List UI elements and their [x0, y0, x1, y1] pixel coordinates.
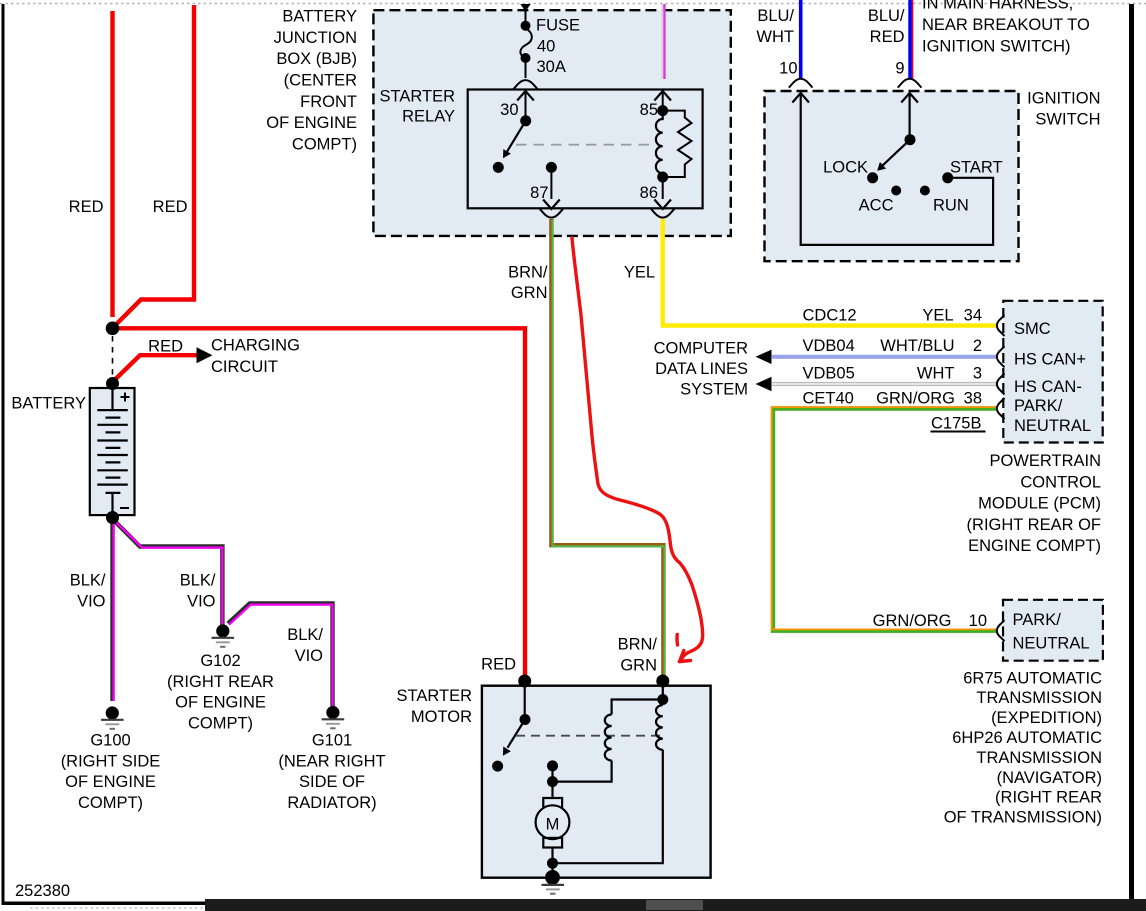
hold-in coil (right): [656, 705, 663, 750]
svg-text:(NEAR RIGHT: (NEAR RIGHT: [278, 752, 385, 770]
svg-text:G101: G101: [312, 732, 352, 750]
svg-text:VDB04: VDB04: [803, 337, 855, 355]
svg-text:10: 10: [779, 60, 797, 78]
svg-text:FUSE: FUSE: [536, 17, 580, 35]
svg-text:2: 2: [973, 337, 982, 355]
connector at ignition pin 9: [898, 79, 922, 88]
pin 86 node dot: [657, 172, 668, 183]
ignition switch dashed box: [765, 91, 1019, 261]
wire BLK/VIO G102 to G101: [228, 603, 333, 706]
svg-text:40: 40: [537, 38, 555, 56]
battery junction box BJB dashed box: [373, 10, 730, 236]
svg-text:34: 34: [964, 306, 982, 324]
solenoid feed wires: [612, 681, 663, 715]
starter ground stem: [551, 863, 553, 871]
ignition wiper arrowhead: [877, 162, 886, 171]
C175B underline: [931, 431, 986, 433]
svg-text:(RIGHT REAR: (RIGHT REAR: [995, 789, 1102, 807]
svg-text:SWITCH: SWITCH: [1035, 111, 1100, 129]
page top dotted border: [0, 3, 1146, 5]
coil to motor link: [553, 761, 612, 782]
battery top stem: [111, 389, 113, 410]
svg-text:HS CAN-: HS CAN-: [1014, 378, 1082, 396]
pin 87 exit arrow: [543, 200, 560, 210]
svg-text:LOCK: LOCK: [823, 159, 868, 177]
svg-text:OF TRANSMISSION): OF TRANSMISSION): [944, 809, 1102, 827]
svg-text:9: 9: [895, 60, 904, 78]
svg-text:IN MAIN HARNESS,: IN MAIN HARNESS,: [922, 0, 1073, 13]
battery plus terminal dot: [106, 377, 119, 390]
svg-text:VIO: VIO: [77, 593, 106, 611]
svg-text:RED: RED: [153, 198, 188, 216]
svg-text:PARK/: PARK/: [1013, 611, 1062, 629]
svg-text:BLK/: BLK/: [70, 572, 106, 590]
wire BLU/RED to ignition pin 9: [908, 0, 912, 79]
pin 86 exit arrow: [654, 200, 671, 210]
svg-text:OF ENGINE: OF ENGINE: [175, 694, 266, 712]
svg-text:(RIGHT REAR: (RIGHT REAR: [167, 673, 274, 691]
svg-text:WHT: WHT: [917, 364, 955, 382]
connector below pin 86: [651, 209, 675, 218]
battery minus sign: [120, 507, 129, 509]
svg-text:86: 86: [640, 184, 658, 202]
svg-text:BATTERY: BATTERY: [282, 8, 357, 26]
svg-text:TRANSMISSION: TRANSMISSION: [976, 689, 1102, 707]
ACC contact dot: [891, 186, 901, 196]
svg-text:G102: G102: [200, 652, 240, 670]
svg-text:SMC: SMC: [1014, 320, 1051, 338]
svg-text:BLK/: BLK/: [180, 572, 216, 590]
svg-text:(RIGHT SIDE: (RIGHT SIDE: [61, 752, 161, 770]
starter switch feed wire: [524, 685, 526, 720]
svg-text:(RIGHT REAR OF: (RIGHT REAR OF: [967, 516, 1101, 534]
svg-text:IGNITION: IGNITION: [1027, 90, 1100, 108]
starter contact link: [551, 766, 553, 782]
PCM connector pin 2: [997, 346, 1005, 367]
svg-text:COMPUTER: COMPUTER: [654, 339, 749, 357]
connector at relay pin 30: [513, 80, 537, 89]
svg-text:BLU/: BLU/: [757, 7, 794, 25]
wire VIO above relay pin 85: [661, 4, 663, 79]
wire RED charging circuit stub: [113, 355, 197, 382]
svg-text:NEAR BREAKOUT TO: NEAR BREAKOUT TO: [922, 16, 1090, 34]
battery plates: [97, 410, 128, 493]
svg-text:NEUTRAL: NEUTRAL: [1014, 417, 1091, 435]
svg-text:WHT: WHT: [756, 28, 794, 46]
svg-text:ENGINE COMPT): ENGINE COMPT): [968, 537, 1101, 555]
starter contact upper dot: [547, 760, 558, 771]
svg-text:SYSTEM: SYSTEM: [680, 380, 748, 398]
relay switch pivot dot: [520, 115, 531, 126]
wire RED main run: junction to starter motor: [113, 328, 526, 681]
svg-text:RED: RED: [69, 198, 104, 216]
svg-text:38: 38: [964, 389, 982, 407]
page right border: [1129, 4, 1134, 903]
motor M circle: [536, 805, 570, 839]
svg-text:VIO: VIO: [295, 647, 324, 665]
motor to ground wire: [551, 848, 553, 864]
relay inner box: [468, 90, 703, 209]
bottom scrollbar thumb: [646, 900, 703, 910]
svg-text:(EXPEDITION): (EXPEDITION): [991, 709, 1102, 727]
svg-text:BRN/: BRN/: [618, 636, 658, 654]
svg-text:30A: 30A: [537, 58, 566, 76]
svg-text:IGNITION SWITCH): IGNITION SWITCH): [922, 38, 1070, 56]
svg-text:NEUTRAL: NEUTRAL: [1013, 635, 1090, 653]
svg-text:C175B: C175B: [931, 415, 981, 433]
battery box: [90, 388, 135, 515]
svg-text:(NAVIGATOR): (NAVIGATOR): [997, 769, 1102, 787]
START contact dot: [942, 172, 953, 183]
svg-text:BOX (BJB): BOX (BJB): [276, 50, 357, 68]
svg-text:252380: 252380: [15, 882, 70, 900]
svg-text:30: 30: [500, 101, 518, 119]
connector at ignition pin 10: [789, 79, 813, 88]
relay coil resistor: [663, 111, 692, 177]
svg-text:6HP26 AUTOMATIC: 6HP26 AUTOMATIC: [952, 729, 1102, 747]
wire YEL: relay pin 86 to PCM pin 34: [663, 219, 996, 326]
starter switch pivot dot: [520, 714, 531, 725]
pin 85 node dot: [657, 105, 668, 116]
svg-text:10: 10: [969, 612, 987, 630]
pin 86 wire: [662, 177, 664, 199]
arrowhead to computer data lines (pin 3): [756, 377, 772, 391]
wire RED vertical right (battery feed B): [115, 5, 195, 326]
svg-text:RED: RED: [481, 656, 516, 674]
svg-text:STARTER: STARTER: [397, 687, 473, 705]
PCM connector pin 38: [997, 398, 1005, 419]
svg-text:RED: RED: [870, 28, 905, 46]
svg-text:WHT/BLU: WHT/BLU: [880, 337, 954, 355]
svg-text:MODULE (PCM): MODULE (PCM): [978, 495, 1101, 513]
pull-in coil (left): [605, 715, 612, 761]
wire fuse to relay connector: [525, 60, 527, 78]
svg-text:STARTER: STARTER: [380, 88, 456, 106]
svg-text:SIDE OF: SIDE OF: [299, 773, 365, 791]
wire BLK/VIO battery to G100: [110, 519, 114, 701]
fuse element squiggle: [520, 29, 531, 59]
RUN contact dot: [920, 186, 930, 196]
svg-text:BRN/: BRN/: [508, 264, 548, 282]
svg-text:RADIATOR): RADIATOR): [287, 794, 376, 812]
svg-text:6R75 AUTOMATIC: 6R75 AUTOMATIC: [963, 669, 1102, 687]
relay coil: [656, 111, 663, 177]
svg-text:MOTOR: MOTOR: [411, 708, 472, 726]
connector below pin 87: [540, 209, 564, 218]
motor feed wire: [551, 782, 553, 798]
svg-text:GRN: GRN: [511, 284, 548, 302]
svg-text:GRN/ORG: GRN/ORG: [876, 389, 955, 407]
wire BLK/VIO battery to G102: [113, 519, 223, 625]
ignition wiper pivot dot: [905, 134, 916, 145]
wire WHT/BLU: PCM pin 2: [772, 355, 996, 359]
pin 87 node dot: [546, 162, 557, 173]
svg-text:RUN: RUN: [933, 197, 969, 215]
hold-in coil return wire: [553, 750, 663, 863]
PCM connector pin 3: [997, 374, 1005, 395]
ignition pin 9 entry arrow: [901, 93, 918, 103]
svg-text:CIRCUIT: CIRCUIT: [211, 358, 278, 376]
ground G102: [212, 624, 235, 646]
svg-text:3: 3: [973, 364, 982, 382]
wire into fuse: [525, 9, 527, 23]
page left border: [2, 4, 5, 903]
svg-text:RED: RED: [148, 338, 183, 356]
svg-text:OF ENGINE: OF ENGINE: [266, 114, 357, 132]
starter motor BRN/GRN entry dot: [656, 675, 669, 688]
pin 30 entry arrow: [517, 91, 534, 101]
svg-text:DATA LINES: DATA LINES: [655, 360, 748, 378]
svg-text:COMPT): COMPT): [78, 794, 143, 812]
starter motor RED entry dot: [518, 675, 531, 688]
solenoid feed node dot: [657, 694, 668, 705]
svg-text:G100: G100: [90, 732, 130, 750]
relay switch arm: [507, 121, 526, 152]
relay actuation dashed line: [516, 144, 652, 146]
starter switch arm: [508, 720, 526, 748]
svg-text:OF ENGINE: OF ENGINE: [65, 773, 156, 791]
ignition pin 9 wire: [908, 93, 910, 140]
svg-text:HS CAN+: HS CAN+: [1014, 351, 1086, 369]
ignition internal wire to START: [801, 93, 993, 245]
svg-text:(CENTER: (CENTER: [284, 72, 357, 90]
svg-text:GRN: GRN: [620, 657, 657, 675]
battery plus sign: [121, 393, 130, 402]
starter switch contact dot: [492, 761, 503, 772]
charging circuit arrowhead: [197, 347, 213, 363]
svg-text:M: M: [546, 816, 560, 834]
page bottom border: [2, 902, 1135, 906]
bottom-left dotted line: [30, 907, 205, 909]
relay switch arm arrowhead: [503, 149, 511, 158]
fuse bottom node dot: [521, 53, 531, 63]
svg-text:87: 87: [530, 184, 548, 202]
ground G100: [101, 706, 124, 728]
wire RED vertical left (battery feed A): [110, 11, 114, 317]
svg-text:POWERTRAIN: POWERTRAIN: [989, 452, 1101, 470]
relay switch contact dot: [493, 162, 504, 173]
dashed link junction to battery: [112, 336, 114, 376]
fuse 40 30A feed arrowhead: [520, 4, 530, 12]
svg-text:BATTERY: BATTERY: [11, 395, 86, 413]
svg-text:COMPT): COMPT): [292, 135, 357, 153]
pin 30 wire: [525, 91, 527, 120]
svg-text:COMPT): COMPT): [188, 714, 253, 732]
starter actuation dashed line: [516, 735, 660, 737]
bottom scrollbar bar: [205, 899, 1146, 911]
arrowhead to computer data lines (pin 2): [756, 350, 772, 364]
svg-text:CHARGING: CHARGING: [211, 337, 300, 355]
park/neutral connector pin 10: [997, 620, 1005, 641]
svg-text:JUNCTION: JUNCTION: [274, 29, 357, 47]
wire BLU/WHT to ignition pin 10: [799, 0, 803, 79]
svg-text:BLK/: BLK/: [287, 626, 323, 644]
svg-text:CDC12: CDC12: [803, 306, 857, 324]
svg-text:CONTROL: CONTROL: [1020, 473, 1101, 491]
motor brush top: [543, 798, 562, 808]
svg-text:GRN/ORG: GRN/ORG: [873, 612, 952, 630]
svg-text:CET40: CET40: [803, 389, 854, 407]
red hand-drawn annotation arrow: [572, 238, 703, 662]
motor brush bottom: [543, 838, 562, 848]
starter motor box: [482, 686, 711, 878]
ignition wiper arm: [883, 140, 911, 166]
svg-text:ACC: ACC: [859, 197, 894, 215]
ground G101: [322, 706, 345, 728]
svg-text:YEL: YEL: [624, 264, 655, 282]
wire BRN/GRN: relay pin 87 to starter motor: [551, 219, 663, 681]
svg-text:TRANSMISSION: TRANSMISSION: [976, 749, 1102, 767]
battery bottom stem: [111, 493, 113, 515]
motor node dot: [547, 776, 558, 787]
svg-text:RELAY: RELAY: [402, 108, 455, 126]
pin 85 entry arrow: [654, 91, 671, 101]
fuse top node dot: [521, 21, 531, 31]
svg-text:BLU/: BLU/: [868, 7, 905, 25]
svg-text:FRONT: FRONT: [300, 93, 357, 111]
junction dot battery feed: [106, 322, 120, 336]
svg-text:VDB05: VDB05: [803, 364, 855, 382]
PCM connector pin 34: [997, 315, 1005, 336]
LOCK contact dot: [867, 172, 878, 183]
svg-text:85: 85: [640, 101, 658, 119]
svg-text:YEL: YEL: [922, 306, 953, 324]
wire GRN/ORG: PCM pin 38 to park/neutral pin 10: [773, 409, 996, 631]
svg-text:START: START: [950, 159, 1003, 177]
PCM dashed box: [1003, 301, 1102, 443]
pin 87 wire: [550, 167, 552, 199]
battery minus terminal dot: [106, 511, 119, 524]
starter ground: [542, 870, 565, 894]
wire WHT: PCM pin 3: [772, 382, 996, 386]
motor bottom node dot: [547, 858, 558, 869]
starter switch arm arrowhead: [503, 747, 511, 756]
ignition pin 10 entry arrow: [792, 93, 809, 103]
park/neutral dashed box: [1003, 600, 1103, 661]
svg-text:PARK/: PARK/: [1014, 397, 1063, 415]
svg-text:VIO: VIO: [187, 593, 216, 611]
pin 85 wire: [662, 91, 664, 111]
